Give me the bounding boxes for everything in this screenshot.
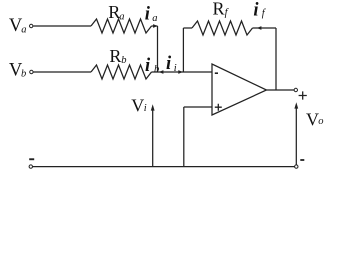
svg-text:i: i xyxy=(253,1,259,21)
svg-text:b: b xyxy=(121,55,126,66)
wire ground bus xyxy=(32,166,294,168)
wire Rf to feedback drop xyxy=(253,27,277,29)
wire noninverting input xyxy=(184,106,212,108)
terminal ground left xyxy=(29,165,32,168)
label current i_a xyxy=(145,4,158,24)
label Ra xyxy=(108,2,124,23)
resistor Rb xyxy=(91,65,152,79)
terminal output xyxy=(294,88,297,91)
svg-text:i: i xyxy=(145,56,151,76)
wire Va input xyxy=(33,25,91,27)
minus marker ground right xyxy=(300,159,304,161)
svg-text:i: i xyxy=(145,4,151,24)
svg-text:V: V xyxy=(131,96,144,116)
label Vb xyxy=(9,60,26,81)
arrowhead Vo xyxy=(294,102,298,108)
svg-text:b: b xyxy=(21,68,26,79)
label current i_i xyxy=(166,54,177,74)
svg-text:R: R xyxy=(213,0,225,19)
wire noninverting drop to ground xyxy=(183,107,185,167)
svg-text:o: o xyxy=(318,116,323,127)
plus marker op-amp noninverting pin xyxy=(215,104,222,111)
label Rb xyxy=(109,46,126,66)
resistor Rf xyxy=(192,21,253,35)
label Vi xyxy=(131,96,147,116)
minus marker op-amp inverting pin xyxy=(215,72,218,74)
svg-text:i: i xyxy=(166,54,172,74)
arrowhead i_i xyxy=(178,70,183,74)
wire Ra to corner xyxy=(152,25,158,27)
wire Vb input xyxy=(33,71,91,73)
svg-text:V: V xyxy=(306,109,319,129)
arrowhead i_b xyxy=(159,70,164,74)
label Vo xyxy=(306,109,323,129)
label current i_f xyxy=(253,1,266,21)
plus marker output terminal xyxy=(299,91,307,99)
arrowhead Vi xyxy=(151,104,155,110)
op-amp U1 xyxy=(212,64,267,115)
svg-text:b: b xyxy=(154,64,159,75)
svg-text:i: i xyxy=(174,63,177,74)
terminal Va xyxy=(30,24,33,27)
terminal Vb xyxy=(30,70,33,73)
label current i_b xyxy=(145,56,159,76)
svg-text:i: i xyxy=(144,103,147,114)
label Rf xyxy=(213,0,230,19)
arrow shaft Vo xyxy=(295,108,297,165)
terminal ground right xyxy=(295,165,298,168)
wire riser to Rf xyxy=(183,27,192,29)
arrow shaft Vi xyxy=(152,110,154,167)
arrowhead i_a xyxy=(153,24,158,28)
svg-text:a: a xyxy=(119,12,124,23)
label Va xyxy=(9,15,27,36)
wire op-amp output xyxy=(267,89,295,91)
wire corner node A drop xyxy=(157,26,159,72)
svg-text:a: a xyxy=(21,25,26,36)
resistor Ra xyxy=(91,19,152,33)
arrowhead i_f xyxy=(257,26,262,30)
svg-text:a: a xyxy=(152,13,157,24)
svg-text:R: R xyxy=(109,46,121,66)
minus marker ground left xyxy=(29,158,34,160)
wire feedback riser xyxy=(182,28,184,72)
wire feedback drop xyxy=(275,28,277,90)
wire Rb to op-amp inverting input xyxy=(152,71,212,73)
